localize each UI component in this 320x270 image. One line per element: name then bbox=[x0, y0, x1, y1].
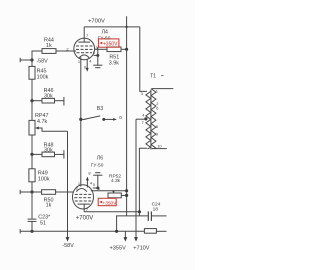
tube Л4 envelope bbox=[74, 38, 95, 60]
tube Л5 envelope bbox=[73, 185, 94, 209]
resistor R44 bbox=[42, 49, 56, 54]
Л4 heater lead with down arrow bbox=[86, 59, 88, 69]
Л4 grid dashes row 2 bbox=[76, 48, 93, 50]
wire RP52 to V4 bbox=[121, 194, 126, 196]
dash after T1 bbox=[161, 75, 164, 77]
wire left of R50 row bbox=[20, 191, 32, 193]
wire bbox=[31, 101, 33, 121]
node junction R50 bbox=[30, 190, 33, 193]
wire -58V input row bbox=[20, 59, 32, 61]
wire C24 right bbox=[152, 215, 167, 217]
svg-text:1k: 1k bbox=[46, 43, 52, 49]
wire ground column Л5 bbox=[97, 175, 99, 188]
svg-text:-58V: -58V bbox=[62, 243, 74, 249]
svg-text:10: 10 bbox=[157, 143, 162, 148]
svg-text:+700V: +700V bbox=[76, 216, 94, 222]
node junction screen/V4 bbox=[125, 189, 128, 192]
svg-text:-58V: -58V bbox=[36, 59, 48, 65]
capacitor C23 bbox=[28, 218, 37, 220]
svg-text:51: 51 bbox=[40, 221, 46, 227]
svg-text:T1: T1 bbox=[150, 73, 156, 79]
Л5 screen lead bbox=[91, 190, 127, 192]
wire to R48 bbox=[32, 153, 42, 155]
resistor R50 bbox=[42, 190, 56, 195]
Л4 cathode dome bbox=[79, 55, 89, 58]
svg-text:1k: 1k bbox=[46, 203, 52, 209]
Л4 screen lead to R51 bbox=[95, 48, 108, 50]
wire R44 to tube grid bbox=[56, 50, 76, 52]
node junction wireA/primary bbox=[138, 210, 141, 213]
wire +700V top rail bbox=[84, 26, 140, 28]
svg-text:18: 18 bbox=[153, 206, 159, 212]
svg-text:+700V: +700V bbox=[88, 19, 105, 25]
ground symbol Л4 screen bbox=[93, 64, 102, 66]
wire B C24 row bbox=[117, 216, 148, 231]
transformer T1 core line bbox=[150, 90, 152, 150]
wire bbox=[31, 192, 33, 219]
transformer T1 secondary winding bbox=[151, 89, 156, 149]
wire R48 to terminal bbox=[55, 153, 64, 155]
terminal tick R46 bbox=[63, 97, 65, 106]
svg-text:+350V: +350V bbox=[102, 200, 117, 206]
svg-text:C23*: C23* bbox=[38, 214, 51, 220]
ground symbol Л5 (inverted) bbox=[93, 174, 102, 176]
arrow +710V bbox=[134, 237, 138, 242]
red box +350V (Л4 screen) bbox=[98, 39, 119, 47]
svg-text:30k: 30k bbox=[44, 147, 53, 153]
wire V4 +700V stub down to wire B bbox=[126, 16, 128, 216]
wire to R50 bbox=[32, 191, 42, 193]
resistor R46 bbox=[42, 98, 55, 103]
resistor R49 bbox=[29, 169, 35, 182]
RP47 wiper arrow bbox=[35, 127, 39, 130]
resistor R45 bbox=[29, 66, 35, 79]
resistor R51 bbox=[107, 47, 121, 52]
Л4 grid dashes row 1 bbox=[76, 45, 93, 47]
svg-text:30k: 30k bbox=[44, 93, 53, 99]
wire to R46 bbox=[32, 100, 42, 102]
node B3 pole bbox=[79, 118, 82, 121]
svg-text:4.3k: 4.3k bbox=[111, 178, 121, 184]
wire R51 to V4 bbox=[121, 48, 127, 50]
Л5 grid dashes row 2 bbox=[74, 197, 91, 199]
Л5 anode plate and lead bbox=[78, 203, 90, 205]
Л6 grid dashes row 3 bbox=[75, 200, 92, 202]
wire rail right end bbox=[156, 230, 166, 232]
capacitor C24 bbox=[147, 211, 149, 221]
terminal tick R48 bbox=[63, 150, 65, 158]
wire V1 down to R45 bbox=[31, 60, 33, 66]
svg-text:+710V: +710V bbox=[133, 245, 150, 251]
transformer T1 primary winding bbox=[146, 91, 151, 148]
wire +700V rail right corner down bbox=[140, 27, 147, 92]
Л4 anode plate and lead bbox=[78, 41, 90, 43]
svg-text:5: 5 bbox=[93, 51, 95, 55]
svg-text:4.7k: 4.7k bbox=[37, 119, 47, 125]
node junction V4 rail small bbox=[125, 26, 127, 28]
wire V3 cathode line bbox=[80, 57, 82, 186]
node junction R51/V4 bbox=[125, 48, 128, 51]
wire up to R44 bbox=[32, 51, 42, 60]
terminal tick left rail bbox=[19, 229, 21, 233]
wire bbox=[31, 135, 33, 154]
svg-text:Л6: Л6 bbox=[97, 156, 103, 162]
svg-text:100k: 100k bbox=[38, 177, 50, 183]
wire V5 tap to +710V bbox=[135, 119, 137, 238]
svg-text:0: 0 bbox=[119, 115, 122, 120]
potentiometer RP47 bbox=[29, 120, 35, 135]
wire bbox=[31, 79, 33, 101]
arrow -58V bbox=[66, 237, 70, 242]
wire R50 to Л5 grid bbox=[56, 191, 74, 193]
node junction rail C23 bbox=[30, 230, 33, 233]
terminal tick left R50 bbox=[19, 190, 21, 194]
RP52 wiper arrow bbox=[113, 190, 115, 192]
transformer T1 pin10 lead bbox=[152, 148, 167, 150]
resistor on rail right bbox=[144, 229, 156, 234]
node junction R48 bbox=[30, 153, 33, 156]
wire R46 to terminal bbox=[55, 100, 64, 102]
Л5 pin5 stub bbox=[93, 187, 98, 189]
wire bbox=[31, 154, 33, 168]
wire bottom rail bbox=[20, 230, 144, 232]
node junction wireB rail bbox=[115, 230, 118, 233]
svg-text:3.9k: 3.9k bbox=[109, 60, 119, 66]
potentiometer RP52 bbox=[108, 193, 121, 198]
Л4 grid dashes row 3 bbox=[77, 52, 93, 54]
Л5 grid dashes row 1 bbox=[75, 193, 92, 195]
transformer T1 primary bottom lead bbox=[139, 148, 147, 216]
wire bbox=[31, 182, 33, 192]
wire V2 bias line bbox=[67, 131, 69, 238]
Л5 heater lead with up arrow bbox=[86, 180, 88, 187]
svg-text:5: 5 bbox=[93, 183, 95, 187]
svg-text:ГУ-50: ГУ-50 bbox=[91, 162, 104, 168]
node junction RP52/V4 bbox=[125, 194, 128, 197]
Л5 cathode dome bbox=[76, 189, 87, 192]
arrow +355V bbox=[124, 231, 126, 238]
svg-text:+350V: +350V bbox=[103, 41, 118, 47]
resistor R48 bbox=[42, 152, 55, 157]
transformer T1 tap 4/7 bbox=[144, 117, 147, 120]
wire screen column to ground bbox=[97, 47, 99, 65]
svg-text:В3: В3 bbox=[97, 106, 103, 112]
svg-text:Л4: Л4 bbox=[102, 30, 108, 36]
terminal tick left -58V bbox=[19, 58, 21, 62]
svg-text:100k: 100k bbox=[37, 75, 49, 81]
red box +350V (Л5 screen) bbox=[98, 198, 116, 205]
transformer T1 pin1 lead bbox=[152, 88, 174, 90]
svg-text:+355V: +355V bbox=[110, 245, 127, 251]
wire wiper to V2 bbox=[39, 128, 68, 131]
wire A anode row bbox=[84, 211, 139, 213]
node junction R46 bbox=[30, 99, 33, 102]
Л4 pin5 stub bbox=[94, 54, 98, 56]
wire bbox=[31, 221, 33, 231]
switch B3 bbox=[81, 118, 86, 120]
node junction R44/R45 bbox=[30, 58, 33, 61]
